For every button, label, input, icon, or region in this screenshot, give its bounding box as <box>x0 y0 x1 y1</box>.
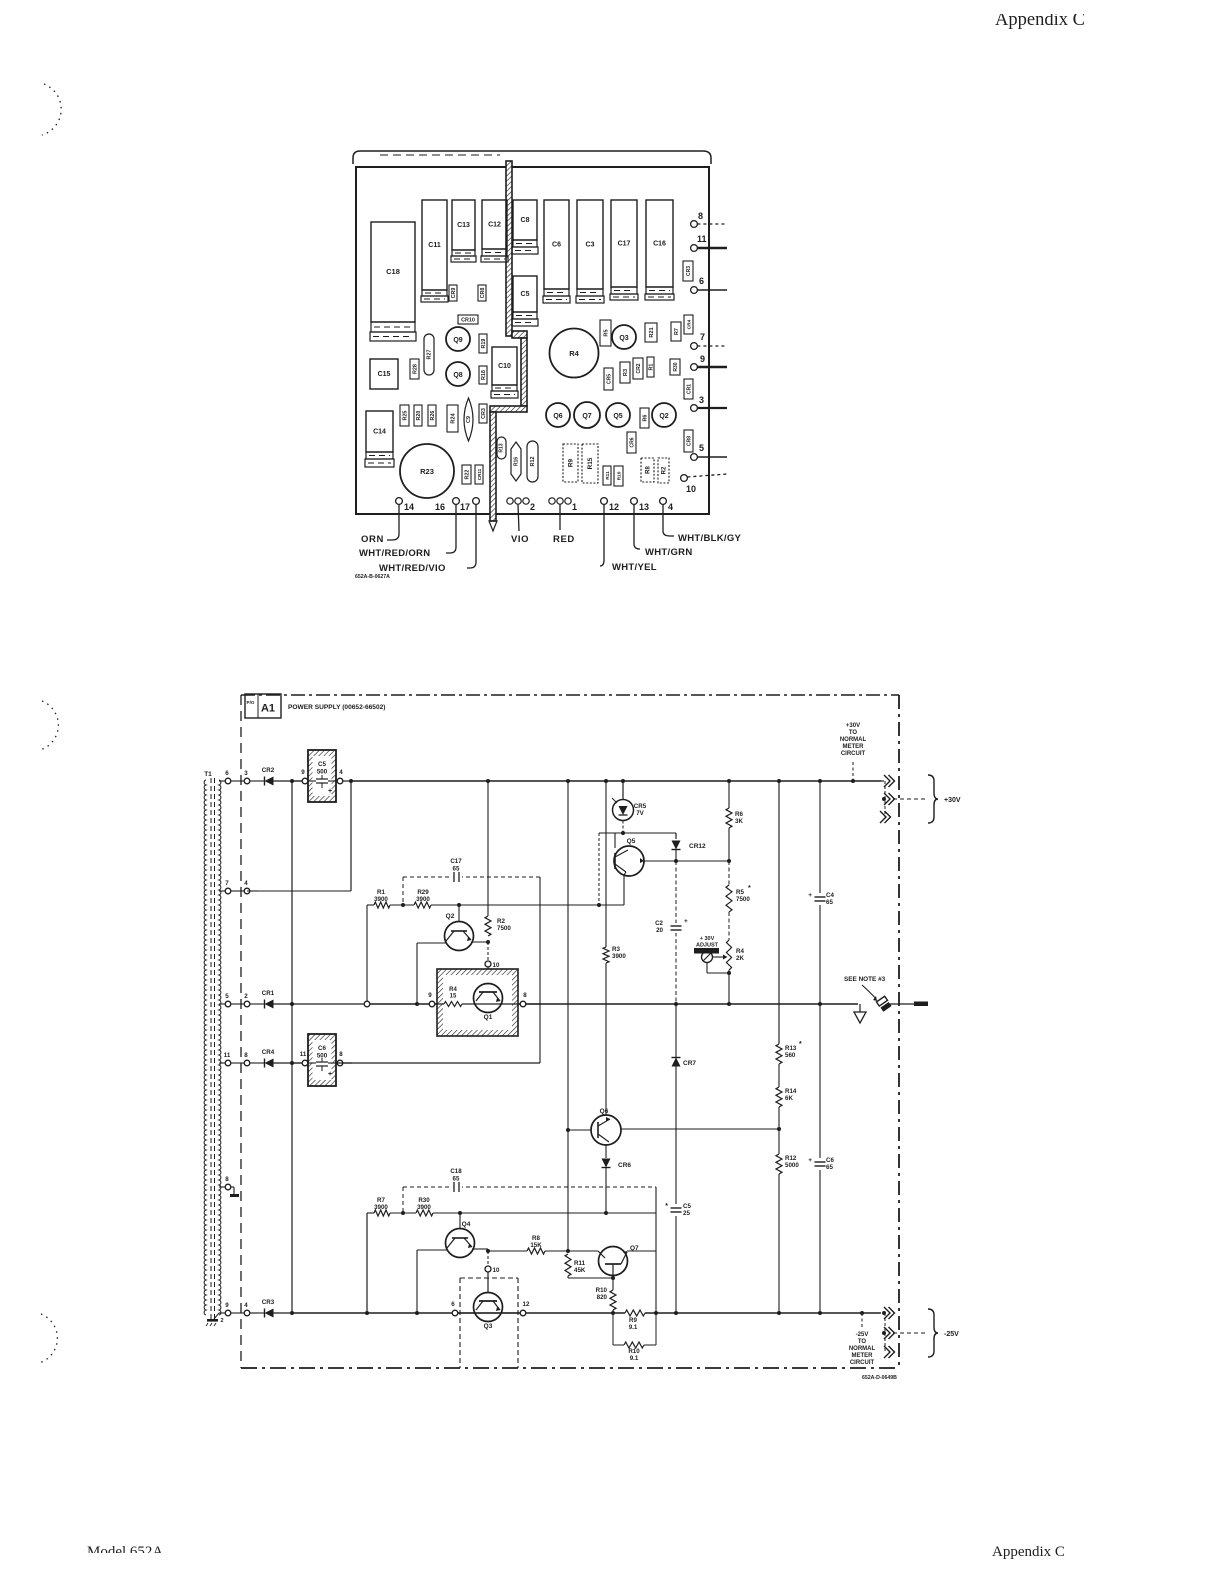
resistor R12 (board) <box>527 441 538 482</box>
svg-text:R3: R3 <box>623 369 629 376</box>
svg-text:R23: R23 <box>420 467 434 476</box>
svg-text:R20: R20 <box>416 411 422 421</box>
wire CR5 to base line <box>622 821 624 834</box>
transformer T1 core <box>210 778 212 1320</box>
svg-text:C15: C15 <box>378 371 391 378</box>
heatsink hatched strip upper <box>506 161 512 336</box>
svg-text:+30V: +30V <box>846 723 860 729</box>
wire Q4 emitter <box>417 1249 447 1251</box>
svg-text:R9: R9 <box>567 458 574 467</box>
svg-text:R2: R2 <box>497 918 505 925</box>
svg-text:6K: 6K <box>785 1095 793 1102</box>
resistor R22 (board) <box>462 465 471 484</box>
pin 14 <box>396 498 403 505</box>
svg-text:10: 10 <box>493 1267 500 1274</box>
svg-text:R11: R11 <box>605 471 611 480</box>
svg-text:CR5: CR5 <box>634 803 647 810</box>
wire R7-R30 <box>390 1212 416 1214</box>
svg-text:CR4: CR4 <box>686 319 692 329</box>
capacitor C6 65 <box>819 1004 821 1158</box>
svg-text:R1: R1 <box>648 364 654 371</box>
wire R1-R29 <box>390 904 414 906</box>
svg-text:3900: 3900 <box>416 896 430 903</box>
transistor Q6 (board) <box>546 403 570 427</box>
svg-text:3: 3 <box>244 770 248 777</box>
svg-text:VIO: VIO <box>511 534 529 545</box>
svg-text:7: 7 <box>700 332 705 342</box>
svg-text:4: 4 <box>244 880 248 887</box>
terminal 8 out of Q1 box <box>502 1003 520 1005</box>
wire pin16 to WHT/RED/ORN <box>446 504 456 553</box>
pin 12 <box>601 498 608 505</box>
resistor R7 3900 <box>367 1212 374 1214</box>
svg-text:R12: R12 <box>530 457 536 467</box>
svg-text:CR12: CR12 <box>689 843 706 850</box>
svg-text:R10: R10 <box>616 471 622 480</box>
capacitor C2 20 <box>669 923 683 933</box>
svg-text:Q3: Q3 <box>619 335 628 342</box>
svg-text:20: 20 <box>656 927 663 934</box>
svg-text:Q2: Q2 <box>446 913 455 920</box>
svg-text:R29: R29 <box>417 889 429 896</box>
title block P/O A1 <box>245 694 281 718</box>
svg-text:Q8: Q8 <box>453 372 462 379</box>
transistor Q2 <box>458 905 460 922</box>
resistor R3 (board) <box>620 362 630 383</box>
pin 17 <box>473 498 480 505</box>
svg-text:R24: R24 <box>450 412 456 423</box>
wire Q7 collector <box>627 1250 656 1252</box>
svg-text:R4: R4 <box>569 349 579 358</box>
transistor Q3 <box>474 1293 503 1322</box>
svg-text:C16: C16 <box>653 241 666 248</box>
svg-text:+: + <box>808 1157 812 1164</box>
T1 tap 6/3 (+30 rectifier upper) <box>219 780 225 782</box>
resistor R27 (board) <box>424 334 434 375</box>
diode CR3 (board right) <box>683 261 693 281</box>
svg-text:CR1: CR1 <box>262 990 275 997</box>
svg-text:CR11: CR11 <box>477 468 482 480</box>
capacitor C5 (board) <box>513 276 537 312</box>
wire Q2 emitter <box>417 942 446 944</box>
node 11 <box>292 1062 302 1064</box>
svg-text:R4: R4 <box>449 987 457 993</box>
svg-text:C12: C12 <box>488 222 501 229</box>
PCB board outline <box>356 167 709 514</box>
svg-text:3900: 3900 <box>374 1204 388 1211</box>
resistor R9 (board) <box>563 444 578 482</box>
svg-text:R22: R22 <box>464 470 470 480</box>
resistor R5 7500 <box>728 861 730 885</box>
svg-text:6: 6 <box>225 770 229 777</box>
svg-text:R25: R25 <box>402 411 408 421</box>
wire rectifier bus x292 <box>291 781 293 1313</box>
pin 3 <box>691 405 698 412</box>
terminal 9 into Q1 box <box>429 1001 435 1007</box>
node 9 <box>292 780 302 782</box>
svg-text:C8: C8 <box>521 217 530 224</box>
+30V output bracket <box>928 775 938 823</box>
wire Q2 collector <box>471 941 488 943</box>
svg-text:9.1: 9.1 <box>630 1355 639 1362</box>
resistor R20 (board) <box>414 405 422 426</box>
diode CR10 (board) <box>458 315 478 324</box>
wire R29 to Q5 collector <box>431 904 624 906</box>
svg-text:R6: R6 <box>642 415 648 422</box>
wire Q5 emitter <box>628 846 630 850</box>
pin 5 <box>691 454 698 461</box>
resistor R30 3900 <box>416 1210 433 1216</box>
T1 tap 5/2 (common) <box>219 1003 225 1005</box>
T1 bottom chassis ground <box>214 1313 219 1319</box>
transistor Q5 (board) <box>606 403 630 427</box>
svg-text:11: 11 <box>300 1051 307 1058</box>
svg-text:C18: C18 <box>450 1168 462 1175</box>
pin 8 <box>691 221 698 228</box>
svg-text:10: 10 <box>493 962 500 969</box>
svg-text:R2: R2 <box>661 466 667 474</box>
svg-text:C5: C5 <box>683 1203 691 1210</box>
svg-text:R19: R19 <box>481 339 487 349</box>
wire divider drop to -25V rail <box>366 1213 368 1311</box>
punch hole arc 1 <box>42 84 61 135</box>
svg-text:10: 10 <box>686 484 696 494</box>
capacitor C8 <box>513 200 537 240</box>
transistor Q7 (board) <box>574 402 600 428</box>
heatsink box Q1 <box>437 969 518 1036</box>
pin 6 <box>691 287 698 294</box>
svg-text:R1: R1 <box>377 889 385 896</box>
schematic border right <box>898 695 900 1368</box>
svg-text:820: 820 <box>597 1294 608 1301</box>
transistor Q8 (board) <box>446 362 470 386</box>
wire C17 right drop x540 <box>539 877 541 1063</box>
svg-text:C17: C17 <box>450 858 462 865</box>
svg-text:+ 30V: + 30V <box>700 936 715 942</box>
resistor R10 (board) <box>614 466 623 486</box>
T1 tap 11/8 (-25 rectifier upper) <box>219 1062 225 1064</box>
wire pin13 to WHT/GRN <box>634 504 640 549</box>
svg-text:8: 8 <box>698 211 703 221</box>
svg-text:R9: R9 <box>629 1317 637 1324</box>
capacitor C14 <box>366 411 393 452</box>
resistor R18 (board) <box>479 366 487 384</box>
svg-text:R13: R13 <box>785 1045 797 1052</box>
svg-text:R8: R8 <box>532 1235 540 1242</box>
svg-text:CIRCUIT: CIRCUIT <box>841 751 866 757</box>
svg-text:8: 8 <box>523 992 527 999</box>
svg-text:SEE NOTE #3: SEE NOTE #3 <box>844 976 886 983</box>
chassis ground bar <box>914 1002 928 1007</box>
resistor R6 (board) <box>640 408 649 428</box>
resistor R29 3900 <box>414 902 431 908</box>
diode CR4 <box>258 1062 265 1064</box>
svg-text:C14: C14 <box>373 429 386 436</box>
diode CR9 (board) <box>449 285 457 301</box>
svg-text:14: 14 <box>404 502 414 512</box>
svg-text:12: 12 <box>609 502 619 512</box>
svg-text:C6: C6 <box>318 1045 326 1052</box>
svg-text:ADJUST: ADJUST <box>696 943 719 949</box>
capacitor C15 <box>370 359 398 389</box>
diode CR8 (board) <box>478 285 486 301</box>
svg-text:2K: 2K <box>736 955 744 962</box>
svg-text:C5: C5 <box>521 291 530 298</box>
svg-text:WHT/BLK/GY: WHT/BLK/GY <box>678 533 742 544</box>
svg-text:CR10: CR10 <box>461 318 475 324</box>
svg-text:-25V: -25V <box>856 1332 869 1338</box>
svg-text:R10: R10 <box>596 1287 608 1294</box>
svg-text:6: 6 <box>451 1301 455 1308</box>
svg-text:R7: R7 <box>377 1197 385 1204</box>
capacitor C5 25 <box>675 1004 677 1204</box>
T1 tap 9/4 (-25 rectifier lower) <box>219 1312 225 1314</box>
svg-text:1: 1 <box>572 502 577 512</box>
svg-text:+: + <box>684 918 688 925</box>
svg-text:*: * <box>748 885 751 892</box>
diode CR11 (board) <box>475 465 483 484</box>
resistor R6 3K <box>728 781 730 808</box>
wire C18 right drop x656 <box>655 1187 657 1313</box>
pins RED group <box>549 498 555 504</box>
resistor R12 5000 <box>776 1154 782 1174</box>
wire Q4 collector to R8 <box>488 1250 527 1252</box>
svg-text:NORMAL: NORMAL <box>849 1346 876 1352</box>
wire C18 feedback <box>403 1186 656 1188</box>
svg-text:TO: TO <box>849 730 858 736</box>
resistor R16 (board) <box>511 442 521 481</box>
schematic border left <box>240 695 242 1368</box>
resistor R1 (board) <box>647 357 654 377</box>
capacitor C6 (board) <box>544 200 569 289</box>
svg-text:CIRCUIT: CIRCUIT <box>850 1360 875 1366</box>
resistor R26 (board) <box>428 405 436 426</box>
svg-text:C17: C17 <box>618 241 631 248</box>
wire pin17 to WHT/RED/VIO <box>467 504 476 568</box>
resistor R15 (board) <box>582 444 598 483</box>
resistor R10 820 <box>612 1278 614 1290</box>
wire left drop x599 <box>598 833 600 905</box>
meter circuit drop +30V <box>852 762 854 781</box>
svg-text:3: 3 <box>699 395 704 405</box>
svg-text:Appendix C: Appendix C <box>992 1544 1065 1560</box>
capacitor C13 <box>452 200 475 250</box>
svg-text:11: 11 <box>224 1052 231 1059</box>
capacitor C12 <box>482 200 507 249</box>
common rail <box>367 1003 858 1005</box>
node 8 <box>328 1062 337 1064</box>
svg-text:5: 5 <box>225 993 229 1000</box>
diode CR3 (board left) <box>479 404 487 423</box>
heatsink hatched strip lower <box>490 412 496 521</box>
svg-text:R5: R5 <box>736 889 744 896</box>
transistor Q9 (board) <box>446 327 470 351</box>
node 4 <box>328 780 337 782</box>
svg-text:ORN: ORN <box>361 534 384 545</box>
wire pin14 to ORN <box>387 504 399 540</box>
svg-text:7: 7 <box>225 880 229 887</box>
resistor R25 (board) <box>400 405 409 426</box>
svg-text:CR8: CR8 <box>686 436 692 446</box>
diode CR1 (board) <box>684 379 693 399</box>
svg-text:4: 4 <box>668 502 673 512</box>
svg-text:R10: R10 <box>628 1348 640 1355</box>
diode CR2 <box>258 780 265 782</box>
svg-text:NORMAL: NORMAL <box>840 737 867 743</box>
svg-text:45K: 45K <box>574 1267 586 1274</box>
svg-text:13: 13 <box>639 502 649 512</box>
svg-text:7500: 7500 <box>497 925 511 932</box>
capacitor C3 (board) <box>577 200 603 289</box>
resistor R11 45K <box>565 1254 571 1276</box>
svg-text:25: 25 <box>683 1210 690 1217</box>
svg-text:Q2: Q2 <box>659 413 668 420</box>
svg-text:R27: R27 <box>427 350 433 360</box>
pin 4 <box>660 498 667 505</box>
heatsink strip tip <box>489 521 497 531</box>
svg-text:POWER SUPPLY (00652-66502): POWER SUPPLY (00652-66502) <box>288 704 386 711</box>
svg-text:Q3: Q3 <box>484 1323 493 1330</box>
svg-text:12: 12 <box>523 1301 530 1308</box>
schematic border bottom <box>241 1367 899 1369</box>
transistor Q6 <box>591 1115 621 1145</box>
svg-text:500: 500 <box>317 769 328 776</box>
resistor R13 560 <box>778 781 780 1044</box>
svg-text:15K: 15K <box>530 1242 542 1249</box>
svg-text:4: 4 <box>244 1302 248 1309</box>
svg-text:R28: R28 <box>412 364 418 374</box>
wire Q6 emitter to CR6 <box>605 1145 607 1158</box>
pin 10 <box>681 475 688 482</box>
terminal 6 into Q3 box <box>452 1310 458 1316</box>
meter circuit drop -25V <box>861 1313 863 1328</box>
resistor R1 3900 <box>367 904 374 906</box>
transistor Q5 <box>614 833 616 848</box>
svg-text:9: 9 <box>700 354 705 364</box>
resistor R7 (board) <box>671 322 681 341</box>
diode CR4 (board) <box>684 315 693 334</box>
svg-text:CR3: CR3 <box>686 266 692 276</box>
capacitor C6 500 <box>308 1034 336 1086</box>
wire Q4 collector <box>472 1248 488 1250</box>
pin 16 <box>453 498 460 505</box>
wire VIO group <box>518 504 519 531</box>
wire x568 bias <box>567 781 569 1251</box>
svg-text:R14: R14 <box>785 1088 797 1095</box>
heatsink hatched strip jog left <box>490 406 527 412</box>
svg-text:7V: 7V <box>636 810 644 817</box>
resistor R21 (board) <box>645 323 657 342</box>
svg-text:R18: R18 <box>481 370 487 380</box>
svg-text:CR3: CR3 <box>262 1299 275 1306</box>
svg-text:CR6: CR6 <box>629 437 635 447</box>
resistor R24 (board) <box>447 405 458 432</box>
svg-text:Q6: Q6 <box>600 1108 609 1115</box>
svg-text:+: + <box>328 1071 332 1078</box>
svg-text:CR2: CR2 <box>636 363 642 373</box>
diode CR12 <box>675 833 677 839</box>
wire CR12 line to common <box>675 861 677 1004</box>
svg-text:65: 65 <box>453 1176 460 1183</box>
resistor R14 6K <box>776 1087 782 1107</box>
svg-text:R26: R26 <box>430 411 436 421</box>
svg-text:R7: R7 <box>674 328 680 335</box>
svg-text:Q7: Q7 <box>582 413 591 420</box>
resistor R3 3900 <box>605 781 607 947</box>
svg-text:R5: R5 <box>603 329 609 336</box>
svg-text:C10: C10 <box>498 363 511 370</box>
svg-text:C4: C4 <box>826 892 834 899</box>
svg-text:C13: C13 <box>457 222 470 229</box>
T1 tap 7/4 <box>219 890 225 892</box>
svg-text:8: 8 <box>244 1052 248 1059</box>
svg-text:9: 9 <box>225 1302 229 1309</box>
diode CR2 (board) <box>633 358 643 379</box>
svg-text:WHT/YEL: WHT/YEL <box>612 562 657 573</box>
resistor R4 2K (pot) <box>726 940 731 970</box>
resistor R2 (board) <box>658 458 669 483</box>
resistor R2 7500 <box>487 781 489 916</box>
transistor Q7 <box>599 1247 628 1276</box>
svg-text:METER: METER <box>852 1353 874 1359</box>
svg-text:+: + <box>328 788 332 795</box>
wire C17 left drop <box>402 877 404 905</box>
svg-text:CR4: CR4 <box>262 1049 275 1056</box>
svg-text:R4: R4 <box>736 948 744 955</box>
svg-text:C9: C9 <box>466 416 472 423</box>
dashed box Q3 <box>460 1277 518 1279</box>
resistor R28 (board) <box>410 359 419 379</box>
svg-text:CR1: CR1 <box>686 384 692 394</box>
svg-text:WHT/GRN: WHT/GRN <box>645 547 692 558</box>
svg-text:652A-D-0649B: 652A-D-0649B <box>862 1375 897 1381</box>
pin 7 <box>691 343 698 350</box>
transistor Q1 <box>474 984 503 1013</box>
svg-text:560: 560 <box>785 1052 796 1059</box>
capacitor C9 (board) <box>464 398 473 441</box>
svg-text:CR7: CR7 <box>683 1060 696 1067</box>
svg-text:3900: 3900 <box>374 896 388 903</box>
svg-text:R6: R6 <box>735 811 743 818</box>
wire C18 left drop <box>402 1187 404 1213</box>
svg-text:METER: METER <box>843 744 865 750</box>
svg-text:+30V: +30V <box>944 797 961 804</box>
punch hole arc 3 <box>39 1314 57 1363</box>
svg-text:+: + <box>808 892 812 899</box>
resistor R30 (board) <box>670 359 680 375</box>
diode CR3 <box>250 1312 265 1314</box>
resistor R4 15 (in Q1 box) <box>444 1002 462 1007</box>
capacitor C11 <box>422 200 447 290</box>
svg-text:C6: C6 <box>826 1157 834 1164</box>
transistor Q3 (board) <box>612 325 636 349</box>
svg-text:C6: C6 <box>552 242 561 249</box>
svg-text:*: * <box>799 1041 802 1048</box>
svg-text:C18: C18 <box>386 267 400 276</box>
svg-text:R13: R13 <box>499 443 505 452</box>
svg-text:P/O: P/O <box>247 700 255 705</box>
resistor R5 (board) <box>600 320 611 346</box>
terminal 12 out of Q3 box <box>502 1312 520 1314</box>
T1 mid tap to chassis <box>219 1186 225 1188</box>
svg-text:R12: R12 <box>785 1155 797 1162</box>
-25V rail <box>292 1312 625 1314</box>
-25V output connector arrows <box>884 1307 890 1319</box>
svg-text:17: 17 <box>460 502 470 512</box>
svg-text:R16: R16 <box>514 457 520 466</box>
svg-text:2: 2 <box>530 502 535 512</box>
diode CR1 <box>258 1003 265 1005</box>
